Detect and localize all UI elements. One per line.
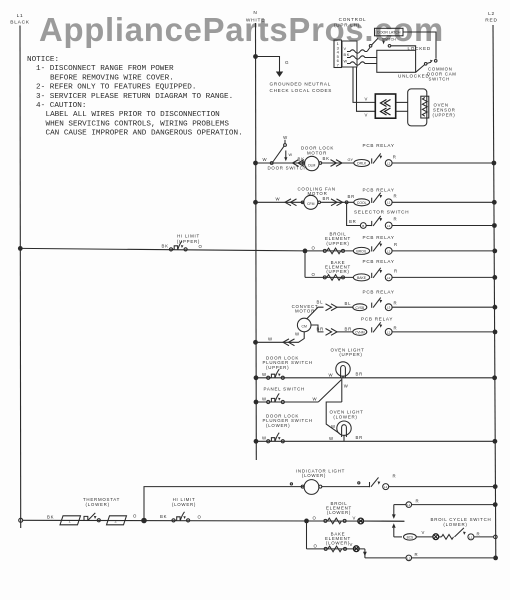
- wire indicator to switch: [322, 486, 370, 488]
- svg-text:1: 1: [69, 519, 72, 524]
- svg-text:DLM: DLM: [308, 164, 315, 168]
- indicator switch: [370, 477, 379, 487]
- svg-text:(LOWER): (LOWER): [327, 510, 351, 515]
- svg-text:L2: L2: [387, 330, 391, 334]
- svg-text:R: R: [394, 301, 398, 306]
- label DOOR LOCK PLUNGER SWITCH (UPPER): [263, 355, 313, 370]
- oven light (upper) DS1: [336, 362, 350, 378]
- svg-text:L1: L1: [387, 201, 391, 205]
- wire bottom main row: [23, 519, 405, 522]
- node indicator tap: [141, 518, 147, 524]
- svg-text:CVHM: CVHM: [355, 331, 365, 335]
- wire selector right: [392, 225, 494, 227]
- wire motor bottom to neutral: [256, 332, 305, 342]
- label INDICATOR LIGHT (LOWER): [296, 468, 345, 478]
- wire row2 left: [256, 201, 304, 203]
- svg-text:BR: BR: [356, 372, 363, 377]
- svg-text:PCB RELAY: PCB RELAY: [363, 188, 395, 193]
- svg-text:CM: CM: [302, 325, 307, 329]
- broil top terminal L1: [406, 502, 412, 508]
- svg-text:R: R: [477, 531, 481, 536]
- svg-text:R: R: [393, 474, 397, 479]
- svg-text:DOOR SWITCH: DOOR SWITCH: [268, 166, 308, 171]
- node row10 right: [493, 439, 498, 444]
- selector switch contact: [372, 216, 392, 229]
- svg-text:BL: BL: [345, 301, 352, 306]
- wire broil-bake drop: [304, 251, 306, 278]
- door lock plunger switch (lower): [267, 433, 285, 443]
- svg-text:W: W: [289, 153, 293, 157]
- connector chevrons row2 right: [331, 199, 343, 206]
- svg-text:R: R: [416, 499, 420, 504]
- svg-text:L3: L3: [387, 306, 391, 310]
- node L1 label: [10, 13, 30, 26]
- svg-text:CAN CAUSE IMPROPER AND DANGERO: CAN CAUSE IMPROPER AND DANGEROUS OPERATI…: [46, 130, 243, 138]
- wire to ground: [256, 57, 280, 72]
- connector arrow up: [392, 523, 396, 528]
- label DOOR LOCK PLUNGER SWITCH (LOWER): [263, 413, 313, 428]
- bake bottom terminal L2: [406, 555, 412, 561]
- svg-text:PCB RELAY: PCB RELAY: [363, 289, 395, 294]
- svg-text:DOOR LATCH: DOOR LATCH: [377, 31, 401, 35]
- node row10 junction: [254, 439, 259, 444]
- wire motor to relay: [322, 162, 354, 164]
- BCS resistor: [442, 535, 454, 540]
- svg-text:1- DISCONNECT RANGE FROM POWER: 1- DISCONNECT RANGE FROM POWER: [36, 65, 174, 73]
- svg-text:BR: BR: [356, 435, 363, 440]
- cam switch blade: [416, 60, 437, 73]
- node hi-limit feed on L1: [18, 246, 23, 251]
- svg-text:L2: L2: [407, 556, 411, 560]
- svg-text:O: O: [313, 515, 317, 520]
- wire N bus: [255, 23, 258, 460]
- node row2 right: [492, 200, 497, 205]
- ground symbol: [276, 72, 283, 78]
- svg-text:CFM: CFM: [307, 202, 315, 206]
- wire lower bulb stub: [343, 435, 345, 442]
- label BROIL ELEMENT (UPPER): [325, 232, 351, 246]
- latch switch blade: [369, 38, 378, 47]
- latch contact: [388, 45, 391, 48]
- thermostat terminal 1: [60, 516, 81, 525]
- svg-text:L1: L1: [17, 13, 24, 19]
- pcb relay contact row2: [372, 193, 392, 206]
- bake riser arrow: [363, 552, 367, 557]
- svg-text:W: W: [262, 372, 267, 377]
- node broil lower junction: [304, 519, 309, 524]
- svg-text:(UPPER): (UPPER): [339, 352, 362, 357]
- wire to latch switch contact: [367, 47, 370, 52]
- relay coil CVHM: [353, 329, 367, 336]
- node row9 junction: [254, 400, 259, 405]
- svg-text:W: W: [262, 436, 267, 441]
- node row7 right: [493, 330, 498, 335]
- relay coil COOL: [354, 199, 370, 206]
- svg-text:L2: L2: [387, 276, 391, 280]
- wire BCS row left: [394, 536, 402, 538]
- connector arrow down: [392, 514, 396, 519]
- wire row9: [256, 401, 318, 403]
- wire motor to relay row2: [321, 201, 355, 203]
- svg-text:BK: BK: [298, 156, 305, 161]
- door switch S1: [270, 140, 286, 165]
- broil element (upper) R1: [323, 249, 344, 252]
- wire broil top right: [412, 504, 496, 506]
- svg-text:L1: L1: [407, 503, 411, 507]
- wire broil riser down to BCS: [393, 528, 395, 537]
- node row2 junction: [253, 200, 258, 205]
- label THERMOSTAT (LOWER): [83, 497, 120, 507]
- svg-text:W: W: [331, 424, 336, 429]
- svg-text:W: W: [329, 372, 334, 377]
- svg-text:W: W: [329, 436, 334, 441]
- wire motor right to row7: [311, 325, 324, 332]
- svg-text:V: V: [344, 47, 347, 51]
- wire row1 right: [392, 162, 494, 164]
- svg-text:(UPPER): (UPPER): [433, 113, 456, 118]
- svg-text:BROIL: BROIL: [356, 250, 366, 254]
- svg-text:(UPPER): (UPPER): [326, 269, 349, 274]
- label HI LIMIT (UPPER): [177, 234, 200, 244]
- label DOOR LOCK MOTOR: [301, 146, 334, 156]
- wires sensor box to probe: [396, 102, 408, 111]
- label BROIL ELEMENT (LOWER): [326, 501, 352, 515]
- connector chevrons convect neutral: [283, 339, 295, 346]
- wire row7 mid: [337, 331, 354, 333]
- wire broil-bake lower drop: [306, 521, 308, 549]
- BCS right terminal: [494, 535, 498, 539]
- oven sensor probe body: [408, 89, 427, 126]
- wire bottom right to bus: [412, 557, 496, 559]
- node selector tap: [345, 201, 348, 204]
- svg-text:BLACK: BLACK: [10, 20, 30, 26]
- svg-text:R: R: [394, 325, 398, 330]
- svg-text:W: W: [344, 60, 348, 64]
- hi limit switch (lower): [172, 512, 190, 522]
- door latch switch box U2: [375, 28, 404, 36]
- wire indicator right: [389, 486, 496, 488]
- svg-text:BEFORE REMOVING WIRE COVER.: BEFORE REMOVING WIRE COVER.: [50, 74, 174, 82]
- wire row10: [256, 440, 495, 442]
- node N label: [246, 10, 265, 24]
- wire locked contact: [391, 46, 416, 51]
- node broil top right: [493, 502, 498, 507]
- svg-text:UNLOCKED: UNLOCKED: [398, 74, 430, 79]
- svg-text:DRLK: DRLK: [357, 162, 367, 166]
- cooling fan motor M2: [301, 195, 320, 209]
- node bake right: [492, 275, 497, 280]
- broil lower terminal: [358, 518, 364, 524]
- node row1 right: [492, 161, 497, 166]
- wire labels V BK W: [344, 47, 351, 64]
- label OVEN LIGHT (UPPER): [330, 348, 364, 358]
- node indicator right: [493, 484, 498, 489]
- wire latch box to cam switch: [403, 32, 436, 59]
- label common door cam switch: [427, 67, 457, 82]
- node row1 junction: [253, 161, 258, 166]
- svg-text:V: V: [350, 542, 354, 547]
- svg-text:CHECK LOCAL CODES: CHECK LOCAL CODES: [270, 88, 333, 93]
- svg-text:BK: BK: [344, 53, 351, 57]
- svg-text:4- CAUTION:: 4- CAUTION:: [36, 102, 86, 110]
- selector switch terminal B: [360, 223, 366, 229]
- node L2 label: [485, 11, 497, 24]
- pcb relay contact row5: [372, 268, 392, 281]
- svg-text:V: V: [365, 97, 369, 102]
- svg-text:BR: BR: [345, 327, 352, 332]
- wire light drop: [341, 378, 343, 402]
- svg-text:L3: L3: [387, 224, 391, 228]
- oven light (lower) DS2: [337, 421, 351, 437]
- svg-text:(LOWER): (LOWER): [326, 541, 350, 546]
- svg-text:RED: RED: [485, 18, 497, 24]
- svg-text:R: R: [394, 217, 398, 222]
- svg-text:R: R: [394, 269, 398, 274]
- label CONVECT MOTOR: [292, 304, 319, 314]
- svg-text:WHITE: WHITE: [246, 18, 265, 24]
- wire row8: [256, 377, 495, 379]
- label OVEN LIGHT (LOWER): [329, 410, 363, 420]
- node bottom right: [493, 556, 498, 561]
- wires to oven sensor: [353, 67, 375, 111]
- wire L2 bus: [493, 25, 496, 558]
- svg-text:L1: L1: [384, 485, 388, 489]
- svg-text:3- SERVICER PLEASE RETURN DIAG: 3- SERVICER PLEASE RETURN DIAGRAM TO RAN…: [36, 93, 233, 101]
- pcb relay contact row1: [372, 153, 392, 166]
- svg-text:V: V: [422, 530, 426, 535]
- svg-text:BCS: BCS: [407, 535, 414, 539]
- grounded neutral note: [270, 82, 333, 93]
- pcb relay contact row7: [372, 322, 392, 335]
- wire BCS to resistor: [439, 536, 442, 538]
- svg-text:PCB RELAY: PCB RELAY: [363, 235, 395, 240]
- svg-text:SWITCH: SWITCH: [382, 37, 397, 41]
- node selector right: [492, 223, 497, 228]
- pcb relay contact row4: [372, 241, 392, 254]
- label oven sensor (upper): [433, 103, 456, 118]
- svg-text:(LOWER): (LOWER): [443, 522, 467, 527]
- wire broil lower to riser: [364, 520, 405, 522]
- indicator switch arrow: [378, 481, 381, 484]
- panel switch S2: [267, 393, 285, 403]
- svg-text:G: G: [285, 60, 289, 65]
- svg-text:PCB RELAY: PCB RELAY: [361, 316, 393, 321]
- connector chevrons row7: [326, 329, 338, 336]
- svg-text:W: W: [283, 135, 288, 140]
- label HI LIMIT (LOWER): [172, 497, 196, 507]
- connector chevron left row1: [293, 160, 305, 167]
- cam switch arrow: [430, 60, 433, 63]
- svg-text:W: W: [263, 157, 268, 162]
- label BAKE ELEMENT (LOWER): [325, 531, 351, 545]
- svg-text:BK: BK: [162, 244, 169, 249]
- connector chevrons row2: [285, 199, 297, 206]
- svg-text:L2: L2: [387, 161, 391, 165]
- wire selector drop: [347, 204, 361, 226]
- svg-text:(LOWER): (LOWER): [333, 414, 357, 419]
- node row8 right: [492, 375, 497, 380]
- wire bake riser: [364, 549, 366, 558]
- svg-text:(UPR LH): (UPR LH): [334, 23, 360, 28]
- svg-text:LABEL ALL WIRES PRIOR TO DISCO: LABEL ALL WIRES PRIOR TO DISCONNECTION: [46, 111, 220, 119]
- svg-text:(UPPER): (UPPER): [266, 365, 289, 370]
- wire hi-limit feed: [20, 248, 305, 251]
- svg-text:O: O: [312, 245, 316, 250]
- svg-text:COOL: COOL: [357, 201, 367, 205]
- wire row1 left: [256, 162, 305, 164]
- svg-text:W: W: [344, 383, 349, 388]
- BCS switch blade: [455, 528, 464, 537]
- indicator switch contact: [383, 484, 389, 490]
- connector chevrons row6: [326, 304, 338, 311]
- svg-text:(LOWER): (LOWER): [172, 502, 196, 507]
- BCS terminal crossed: [433, 534, 439, 540]
- BCS contact L1: [468, 534, 474, 540]
- convect motor M3: [297, 318, 311, 332]
- svg-text:BL: BL: [317, 299, 324, 304]
- svg-text:BK: BK: [323, 156, 330, 161]
- svg-text:2: 2: [115, 519, 118, 524]
- svg-text:L1: L1: [469, 535, 473, 539]
- node L1 bottom terminal: [19, 518, 23, 522]
- svg-text:BAKE: BAKE: [357, 276, 367, 280]
- svg-text:O: O: [198, 514, 202, 519]
- broil element (lower) R3: [324, 519, 346, 522]
- svg-text:WHEN SERVICING CONTROLS, WIRIN: WHEN SERVICING CONTROLS, WIRING PROBLEMS: [46, 120, 230, 128]
- svg-text:BK: BK: [160, 514, 167, 519]
- wire row6 mid: [337, 306, 354, 308]
- bake element (upper) R2: [323, 276, 344, 279]
- svg-text:L2: L2: [488, 11, 495, 17]
- node convect neutral: [253, 340, 258, 345]
- wire panel diagonal: [318, 380, 341, 402]
- svg-text:L2: L2: [387, 249, 391, 253]
- svg-text:SELECTOR SWITCH: SELECTOR SWITCH: [354, 209, 409, 214]
- node row6 right: [493, 305, 498, 310]
- relay coil BROIL: [353, 247, 369, 254]
- svg-text:R: R: [394, 242, 398, 247]
- svg-text:V: V: [353, 516, 357, 521]
- door switch arrow: [284, 157, 287, 161]
- bake lower terminal: [353, 546, 359, 552]
- BCS coil: [404, 534, 417, 540]
- thermostat blade arrow: [94, 516, 97, 519]
- pcb relay contact row6: [372, 298, 392, 311]
- wire broil riser up: [393, 505, 395, 517]
- svg-text:(LOWER): (LOWER): [86, 502, 110, 507]
- NOTICE text block: [27, 56, 243, 138]
- svg-text:V: V: [365, 112, 369, 117]
- wire bake right: [392, 276, 495, 278]
- svg-text:R: R: [394, 193, 398, 198]
- svg-text:SWITCH: SWITCH: [429, 77, 450, 82]
- wire weave to cam rect: [367, 58, 377, 64]
- svg-text:O: O: [199, 244, 203, 249]
- wire row7 right: [392, 331, 495, 333]
- svg-text:(UPPER): (UPPER): [326, 241, 349, 246]
- wire broil row: [305, 250, 354, 252]
- thermostat switch contact: [97, 519, 100, 522]
- node broil junction: [303, 249, 308, 254]
- svg-text:R: R: [415, 552, 419, 557]
- wire broil right: [392, 250, 495, 252]
- wire BCS right: [474, 536, 494, 538]
- svg-text:O: O: [312, 272, 316, 277]
- svg-text:W: W: [262, 396, 267, 401]
- label COOLING FAN MOTOR: [298, 187, 336, 197]
- hi limit switch (upper): [169, 241, 187, 251]
- bake element (lower) R4: [324, 547, 346, 550]
- relay coil BAKE: [353, 274, 369, 281]
- svg-text:NOTICE:: NOTICE:: [27, 56, 59, 64]
- wire weave from connector: [347, 50, 367, 65]
- svg-text:BK: BK: [47, 514, 54, 519]
- node broil right: [492, 249, 497, 254]
- svg-text:(LOWER): (LOWER): [266, 423, 290, 428]
- svg-text:W: W: [313, 396, 318, 401]
- svg-text:W: W: [276, 196, 281, 201]
- svg-text:MOTOR: MOTOR: [307, 150, 327, 155]
- svg-text:BR: BR: [349, 219, 356, 224]
- connector wire-label box: [342, 41, 357, 67]
- connector P1 pins 1-7: [334, 40, 342, 68]
- svg-text:(LOWER): (LOWER): [302, 473, 326, 478]
- svg-text:PANEL SWITCH: PANEL SWITCH: [264, 386, 305, 391]
- label BAKE ELEMENT (UPPER): [325, 260, 351, 274]
- ground branch junction: [253, 54, 258, 59]
- wire broil top row: [394, 504, 406, 506]
- svg-text:W: W: [295, 331, 300, 336]
- latch switch arrow: [382, 41, 385, 45]
- wire selector to contact: [366, 225, 372, 227]
- svg-text:O: O: [133, 514, 137, 519]
- label BROIL CYCLE SWITCH (LOWER): [431, 517, 492, 527]
- wire BCS mid: [416, 536, 433, 538]
- BCS switch arrow: [463, 532, 466, 535]
- wire bake lower row: [307, 548, 365, 550]
- connector chevrons row1: [331, 160, 343, 167]
- svg-text:O: O: [314, 543, 318, 548]
- wire bake row: [305, 276, 354, 278]
- relay coil DRLK: [354, 160, 370, 167]
- svg-text:BR: BR: [323, 196, 330, 201]
- sensor element RTD: [421, 96, 429, 118]
- wire row6 right: [392, 306, 495, 308]
- svg-text:GROUNDED NEUTRAL: GROUNDED NEUTRAL: [270, 82, 332, 87]
- wire L1 bus: [19, 26, 22, 529]
- door lock motor M1: [302, 156, 322, 170]
- svg-text:W: W: [268, 337, 273, 342]
- svg-text:B: B: [362, 224, 364, 228]
- wire row2 right: [392, 201, 494, 203]
- door lock plunger switch (upper): [267, 369, 285, 379]
- svg-text:PCB RELAY: PCB RELAY: [363, 143, 395, 148]
- node row8 junction: [254, 375, 259, 380]
- indicator light (lower) DS3: [290, 480, 360, 495]
- relay coil CONV: [353, 304, 367, 311]
- svg-text:PCB RELAY: PCB RELAY: [363, 259, 395, 264]
- wire indicator feed: [144, 487, 304, 521]
- svg-text:CONTROL: CONTROL: [339, 17, 367, 22]
- svg-text:GY: GY: [348, 158, 354, 162]
- svg-text:BR: BR: [317, 326, 324, 331]
- door cam linkage rectangle: [377, 50, 416, 72]
- svg-text:R: R: [393, 154, 397, 159]
- svg-text:2- REFER ONLY TO FEATURES EQUI: 2- REFER ONLY TO FEATURES EQUIPPED.: [36, 84, 196, 92]
- svg-text:BR: BR: [348, 194, 355, 199]
- wire motor top to row6: [307, 307, 324, 319]
- wire to lower light: [326, 402, 342, 434]
